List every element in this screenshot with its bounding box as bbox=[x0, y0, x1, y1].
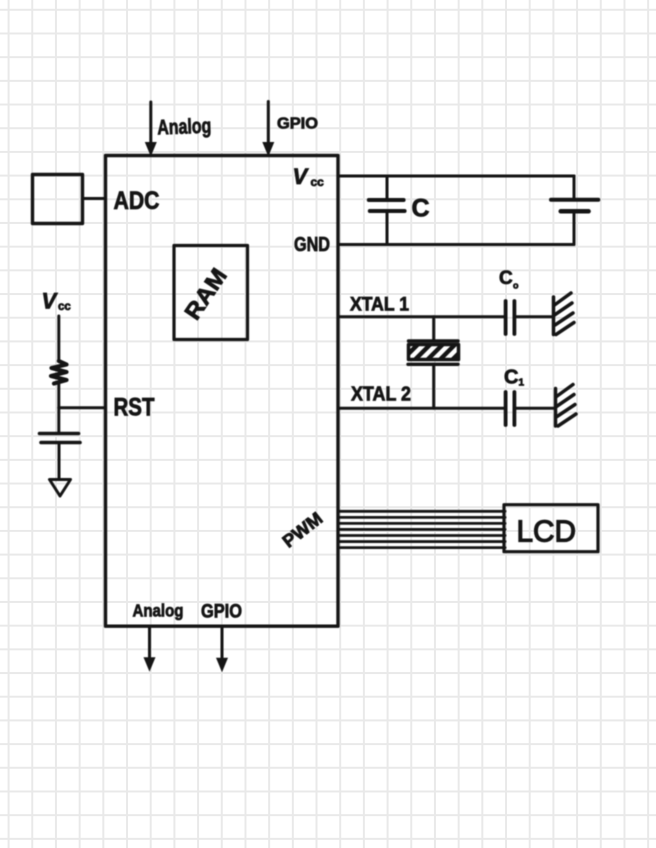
svg-text:LCD: LCD bbox=[517, 514, 577, 549]
svg-text:ADC: ADC bbox=[114, 187, 160, 215]
svg-text:PWM: PWM bbox=[279, 508, 327, 551]
svg-text:C: C bbox=[499, 268, 513, 289]
svg-text:Analog: Analog bbox=[133, 601, 184, 621]
svg-text:cc: cc bbox=[58, 301, 71, 313]
svg-text:C: C bbox=[412, 195, 430, 223]
svg-text:XTAL 2: XTAL 2 bbox=[351, 384, 411, 406]
svg-text:XTAL 1: XTAL 1 bbox=[350, 295, 409, 316]
svg-text:Analog: Analog bbox=[157, 115, 212, 140]
svg-text:RST: RST bbox=[114, 394, 155, 422]
svg-text:GPIO: GPIO bbox=[201, 602, 242, 623]
svg-text:C: C bbox=[504, 367, 518, 389]
svg-text:GPIO: GPIO bbox=[277, 116, 318, 133]
svg-text:RAM: RAM bbox=[179, 263, 232, 324]
svg-text:cc: cc bbox=[311, 175, 325, 189]
svg-text:GND: GND bbox=[294, 234, 330, 256]
svg-text:1: 1 bbox=[519, 378, 525, 389]
svg-text:V: V bbox=[293, 164, 310, 189]
svg-text:V: V bbox=[42, 289, 59, 314]
svg-text:o: o bbox=[513, 281, 519, 291]
